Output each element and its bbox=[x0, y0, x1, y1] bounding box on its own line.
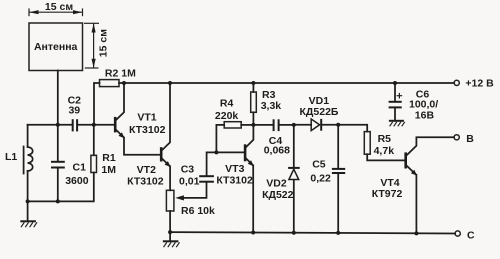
svg-text:КТ972: КТ972 bbox=[372, 188, 403, 200]
svg-text:VT2: VT2 bbox=[137, 164, 156, 176]
svg-text:В: В bbox=[466, 133, 474, 145]
svg-text:C5: C5 bbox=[312, 159, 326, 171]
svg-text:0,068: 0,068 bbox=[264, 145, 290, 157]
svg-text:C3: C3 bbox=[181, 163, 195, 175]
svg-text:КТ3102: КТ3102 bbox=[216, 175, 253, 187]
bottom rail bbox=[170, 232, 455, 233]
dimension 15 cm vertical bbox=[84, 23, 110, 68]
svg-text:КД522: КД522 bbox=[262, 189, 294, 201]
resistor R5 4,7k bbox=[338, 125, 404, 161]
capacitor C6 (electrolytic) bbox=[389, 83, 439, 122]
inductor L1 bbox=[5, 125, 33, 202]
terminal C bbox=[455, 229, 475, 241]
transistor VT2 KT3102 bbox=[127, 83, 170, 190]
svg-text:L1: L1 bbox=[5, 151, 17, 163]
svg-text:R4: R4 bbox=[220, 98, 234, 110]
ground (below C6) bbox=[389, 121, 405, 127]
wire input node horizontal bbox=[28, 124, 73, 126]
terminal B bbox=[454, 133, 474, 145]
svg-text:+12 В: +12 В bbox=[465, 78, 494, 90]
svg-text:VT3: VT3 bbox=[225, 163, 244, 175]
svg-text:R5: R5 bbox=[378, 133, 392, 145]
transistor VT4 KT972 bbox=[372, 137, 454, 233]
svg-text:220k: 220k bbox=[215, 110, 239, 122]
svg-text:С: С bbox=[467, 229, 475, 241]
svg-text:Антенна: Антенна bbox=[34, 41, 78, 53]
terminal +12V bbox=[454, 78, 494, 90]
antenna box bbox=[29, 23, 83, 71]
svg-text:VT1: VT1 bbox=[137, 112, 156, 124]
resistor R1 bbox=[91, 125, 116, 176]
diode VD1 KD522B bbox=[294, 95, 339, 131]
svg-text:15 см: 15 см bbox=[45, 1, 73, 13]
capacitor C5 bbox=[310, 125, 345, 233]
svg-text:VT4: VT4 bbox=[380, 177, 399, 189]
junction node dots bbox=[26, 81, 419, 235]
resistor R3 3,3k bbox=[251, 83, 282, 125]
wire antenna to input node bbox=[57, 71, 59, 125]
dimension 15 cm horizontal bbox=[29, 1, 83, 16]
svg-text:15 см: 15 см bbox=[98, 29, 110, 57]
diode VD2 KD522 bbox=[262, 125, 300, 233]
wire C3 node to VT3 base bbox=[216, 151, 243, 153]
wiper arrow into R6 bbox=[175, 182, 206, 201]
svg-text:0,22: 0,22 bbox=[310, 173, 331, 185]
svg-text:16В: 16В bbox=[415, 110, 435, 122]
top rail +12V bbox=[119, 82, 454, 84]
svg-text:R6 10k: R6 10k bbox=[181, 205, 215, 217]
resistor R4 220k bbox=[215, 98, 253, 153]
svg-text:0,01: 0,01 bbox=[179, 175, 200, 187]
capacitor C4 bbox=[253, 119, 293, 156]
svg-text:39: 39 bbox=[68, 104, 80, 116]
svg-text:VD2: VD2 bbox=[266, 177, 287, 189]
svg-text:4,7k: 4,7k bbox=[374, 145, 395, 157]
capacitor C2 bbox=[68, 94, 82, 131]
transistor VT1 KT3102 bbox=[114, 83, 166, 155]
capacitor C1 bbox=[51, 125, 89, 202]
svg-text:1M: 1M bbox=[101, 164, 116, 176]
transistor VT3 KT3102 bbox=[216, 125, 253, 233]
wire C2 to VT1 base bbox=[77, 124, 114, 126]
svg-text:R2 1M: R2 1M bbox=[105, 67, 136, 79]
ground (left, below L1) bbox=[20, 201, 37, 227]
svg-text:R1: R1 bbox=[102, 152, 116, 164]
wire bottom left bbox=[28, 173, 94, 202]
svg-text:КТ3102: КТ3102 bbox=[129, 124, 166, 136]
resistor R2 bbox=[94, 67, 136, 124]
ground (below R6) bbox=[163, 232, 180, 247]
resistor R6 10k (trimmer) bbox=[166, 190, 215, 232]
capacitor C3 bbox=[179, 152, 216, 187]
svg-text:КТ3102: КТ3102 bbox=[127, 176, 164, 188]
svg-text:3,3k: 3,3k bbox=[261, 100, 282, 112]
svg-text:КД522Б: КД522Б bbox=[300, 106, 339, 118]
svg-text:C1: C1 bbox=[73, 162, 87, 174]
svg-text:3600: 3600 bbox=[65, 175, 89, 187]
